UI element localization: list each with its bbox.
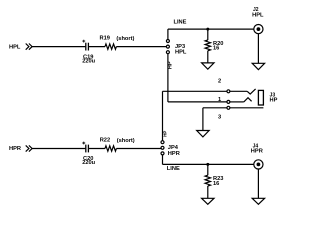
ground below R23	[202, 198, 214, 204]
resistor R23	[205, 175, 210, 186]
wire LINE to J2	[168, 28, 254, 30]
svg-text:3: 3	[218, 114, 221, 120]
wire JP3 pin3 down to jack pin1	[167, 54, 169, 102]
wire junction down to R23	[207, 164, 209, 175]
wire R19 to JP3 pin2	[116, 46, 166, 48]
svg-text:220u: 220u	[82, 160, 95, 166]
ground below jack pin3	[197, 131, 209, 137]
wire jack pin1 horizontal	[168, 101, 227, 103]
svg-text:HPL: HPL	[9, 44, 21, 50]
svg-text:R19: R19	[100, 36, 110, 42]
junction at R20 tap	[206, 28, 209, 31]
resistor R20	[205, 40, 210, 51]
svg-text:16: 16	[213, 181, 219, 187]
jack J3 pin 2	[227, 90, 230, 93]
svg-text:HPR: HPR	[168, 151, 180, 157]
port HPR	[9, 146, 21, 152]
net label LINE (bottom)	[167, 166, 180, 172]
net label LINE	[174, 19, 187, 25]
ground below J4	[252, 198, 264, 204]
svg-text:16: 16	[213, 46, 219, 52]
capacitor C20	[85, 145, 87, 153]
wire R20 to ground	[207, 51, 209, 63]
svg-text:2: 2	[218, 79, 221, 85]
jack J3 pin 3	[227, 106, 230, 109]
wire R22 to JP4 pin2	[116, 148, 161, 150]
jack J3 body	[258, 90, 263, 105]
svg-text:(short): (short)	[117, 138, 135, 144]
wire JP3 pin1 up to LINE	[167, 29, 169, 39]
svg-text:LINE: LINE	[167, 166, 180, 172]
jumper JP4	[161, 141, 164, 144]
wire jack pin3 down to ground	[202, 108, 204, 131]
junction at R23 tap	[206, 163, 209, 166]
svg-text:HPR: HPR	[251, 148, 263, 154]
svg-text:HPL: HPL	[175, 50, 187, 56]
ground below R20	[202, 63, 214, 69]
wire J2 to ground	[257, 34, 259, 64]
port HPR chevron	[26, 145, 32, 151]
wire junction down to R20	[207, 29, 209, 40]
wire jack pin2 horizontal	[163, 90, 228, 92]
connector J2	[252, 7, 264, 18]
svg-text:(short): (short)	[116, 36, 134, 42]
svg-text:HP: HP	[163, 131, 168, 137]
svg-text:HP: HP	[270, 97, 278, 103]
wire JP4 pin3 down to LINE	[162, 155, 164, 165]
connector J4	[251, 144, 263, 155]
wire C19 to R19	[88, 46, 105, 48]
jack J3 pin 1	[227, 100, 230, 103]
svg-text:HPL: HPL	[252, 12, 264, 18]
wire C20 to R22	[88, 148, 105, 150]
net label HP (rotated, at JP3)	[168, 61, 174, 69]
port HPL chevron	[26, 44, 32, 50]
net label HP (rotated, at JP4)	[163, 131, 168, 137]
wire HPL to C19	[32, 46, 85, 48]
wire J4 to ground	[257, 169, 259, 198]
wire HPR to C20	[32, 148, 85, 150]
capacitor C19	[85, 43, 87, 51]
wire R23 to ground	[207, 186, 209, 198]
svg-text:HP: HP	[168, 61, 174, 69]
svg-text:R22: R22	[100, 137, 110, 143]
svg-text:LINE: LINE	[174, 19, 187, 25]
wire LINE to J4	[163, 163, 254, 165]
svg-text:220u: 220u	[82, 58, 95, 64]
jumper JP3	[166, 40, 169, 43]
svg-text:HPR: HPR	[9, 146, 21, 152]
port HPL	[9, 44, 21, 50]
resistor R19	[105, 44, 116, 49]
ground below J2	[252, 63, 264, 69]
svg-text:1: 1	[218, 97, 221, 103]
wire JP4 pin1 up to jack pin2	[162, 91, 164, 140]
resistor R22	[105, 146, 116, 151]
